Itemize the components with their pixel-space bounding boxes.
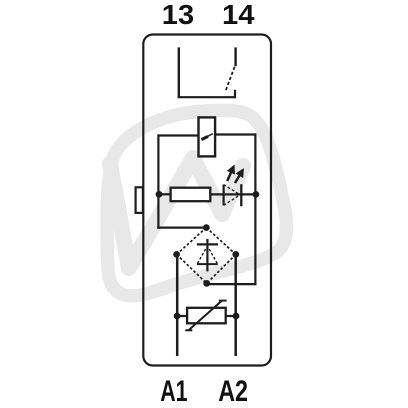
LED arrow 2 bbox=[235, 170, 243, 183]
varistor RV1 body bbox=[187, 308, 226, 324]
bridge edge bottom-right bbox=[207, 254, 236, 283]
wire varistor right bbox=[226, 315, 236, 317]
wire loop bottom left bbox=[157, 227, 206, 229]
varistor RV1 foot upper bbox=[219, 300, 227, 302]
LED arrow 1 bbox=[227, 167, 233, 181]
bridge edge top-left bbox=[177, 228, 207, 255]
node loop left bbox=[156, 191, 163, 198]
bridge diode triangle left side bbox=[198, 247, 207, 263]
bridge diode cathode bar bbox=[197, 243, 218, 245]
terminal tab bbox=[136, 187, 143, 213]
LED V1 triangle top edge bbox=[224, 185, 241, 195]
wire resistor to LED bbox=[210, 193, 256, 195]
contact 14 lead bbox=[234, 47, 236, 66]
contact fixed stub bbox=[234, 90, 236, 99]
wire loop top right bbox=[214, 133, 256, 135]
node varistor left bbox=[174, 313, 181, 320]
node bridge right bbox=[232, 251, 239, 258]
watermark letter W bbox=[110, 158, 243, 268]
LED V1 triangle bottom edge bbox=[224, 195, 241, 206]
svg-text:A1: A1 bbox=[160, 375, 187, 408]
wire loop bottom right bbox=[207, 283, 257, 285]
resistor R1 bbox=[171, 188, 211, 202]
node bridge left bbox=[173, 251, 180, 258]
svg-text:13: 13 bbox=[162, 0, 194, 30]
node varistor right bbox=[233, 313, 240, 320]
wire loop left vertical bbox=[157, 134, 159, 228]
contact 13 lead bbox=[178, 47, 180, 97]
wire A2 vertical bbox=[234, 254, 237, 356]
svg-text:A2: A2 bbox=[218, 375, 248, 408]
bridge edge top-right bbox=[206, 228, 236, 255]
varistor RV1 diagonal bbox=[189, 301, 222, 330]
varistor RV1 foot lower bbox=[185, 329, 192, 331]
bridge edge bottom-left bbox=[177, 254, 207, 283]
coil hysteresis step thin bbox=[208, 134, 213, 137]
node loop right bbox=[253, 191, 260, 198]
node bridge top bbox=[203, 224, 210, 231]
wire loop right vertical bbox=[254, 133, 256, 285]
wire A1 vertical bbox=[176, 254, 179, 356]
contact movable blade bbox=[225, 67, 234, 92]
svg-text:14: 14 bbox=[222, 0, 255, 30]
bridge diode triangle base bbox=[197, 263, 218, 265]
LED V1 triangle left edge bbox=[223, 185, 225, 206]
coil hysteresis step thick bbox=[201, 136, 208, 139]
bridge diode triangle right side bbox=[208, 247, 217, 263]
node bridge bottom bbox=[203, 280, 210, 287]
LED V1 cathode bar bbox=[240, 184, 242, 206]
bridge diode lead bbox=[206, 239, 208, 272]
wire varistor left bbox=[177, 315, 187, 317]
wire resistor left bbox=[159, 193, 171, 195]
coil K1 bbox=[199, 117, 216, 156]
contact fixed bar bbox=[178, 96, 235, 98]
watermark logo ring bbox=[107, 110, 287, 295]
wire loop top left bbox=[158, 134, 200, 136]
relay body outline bbox=[143, 35, 271, 366]
